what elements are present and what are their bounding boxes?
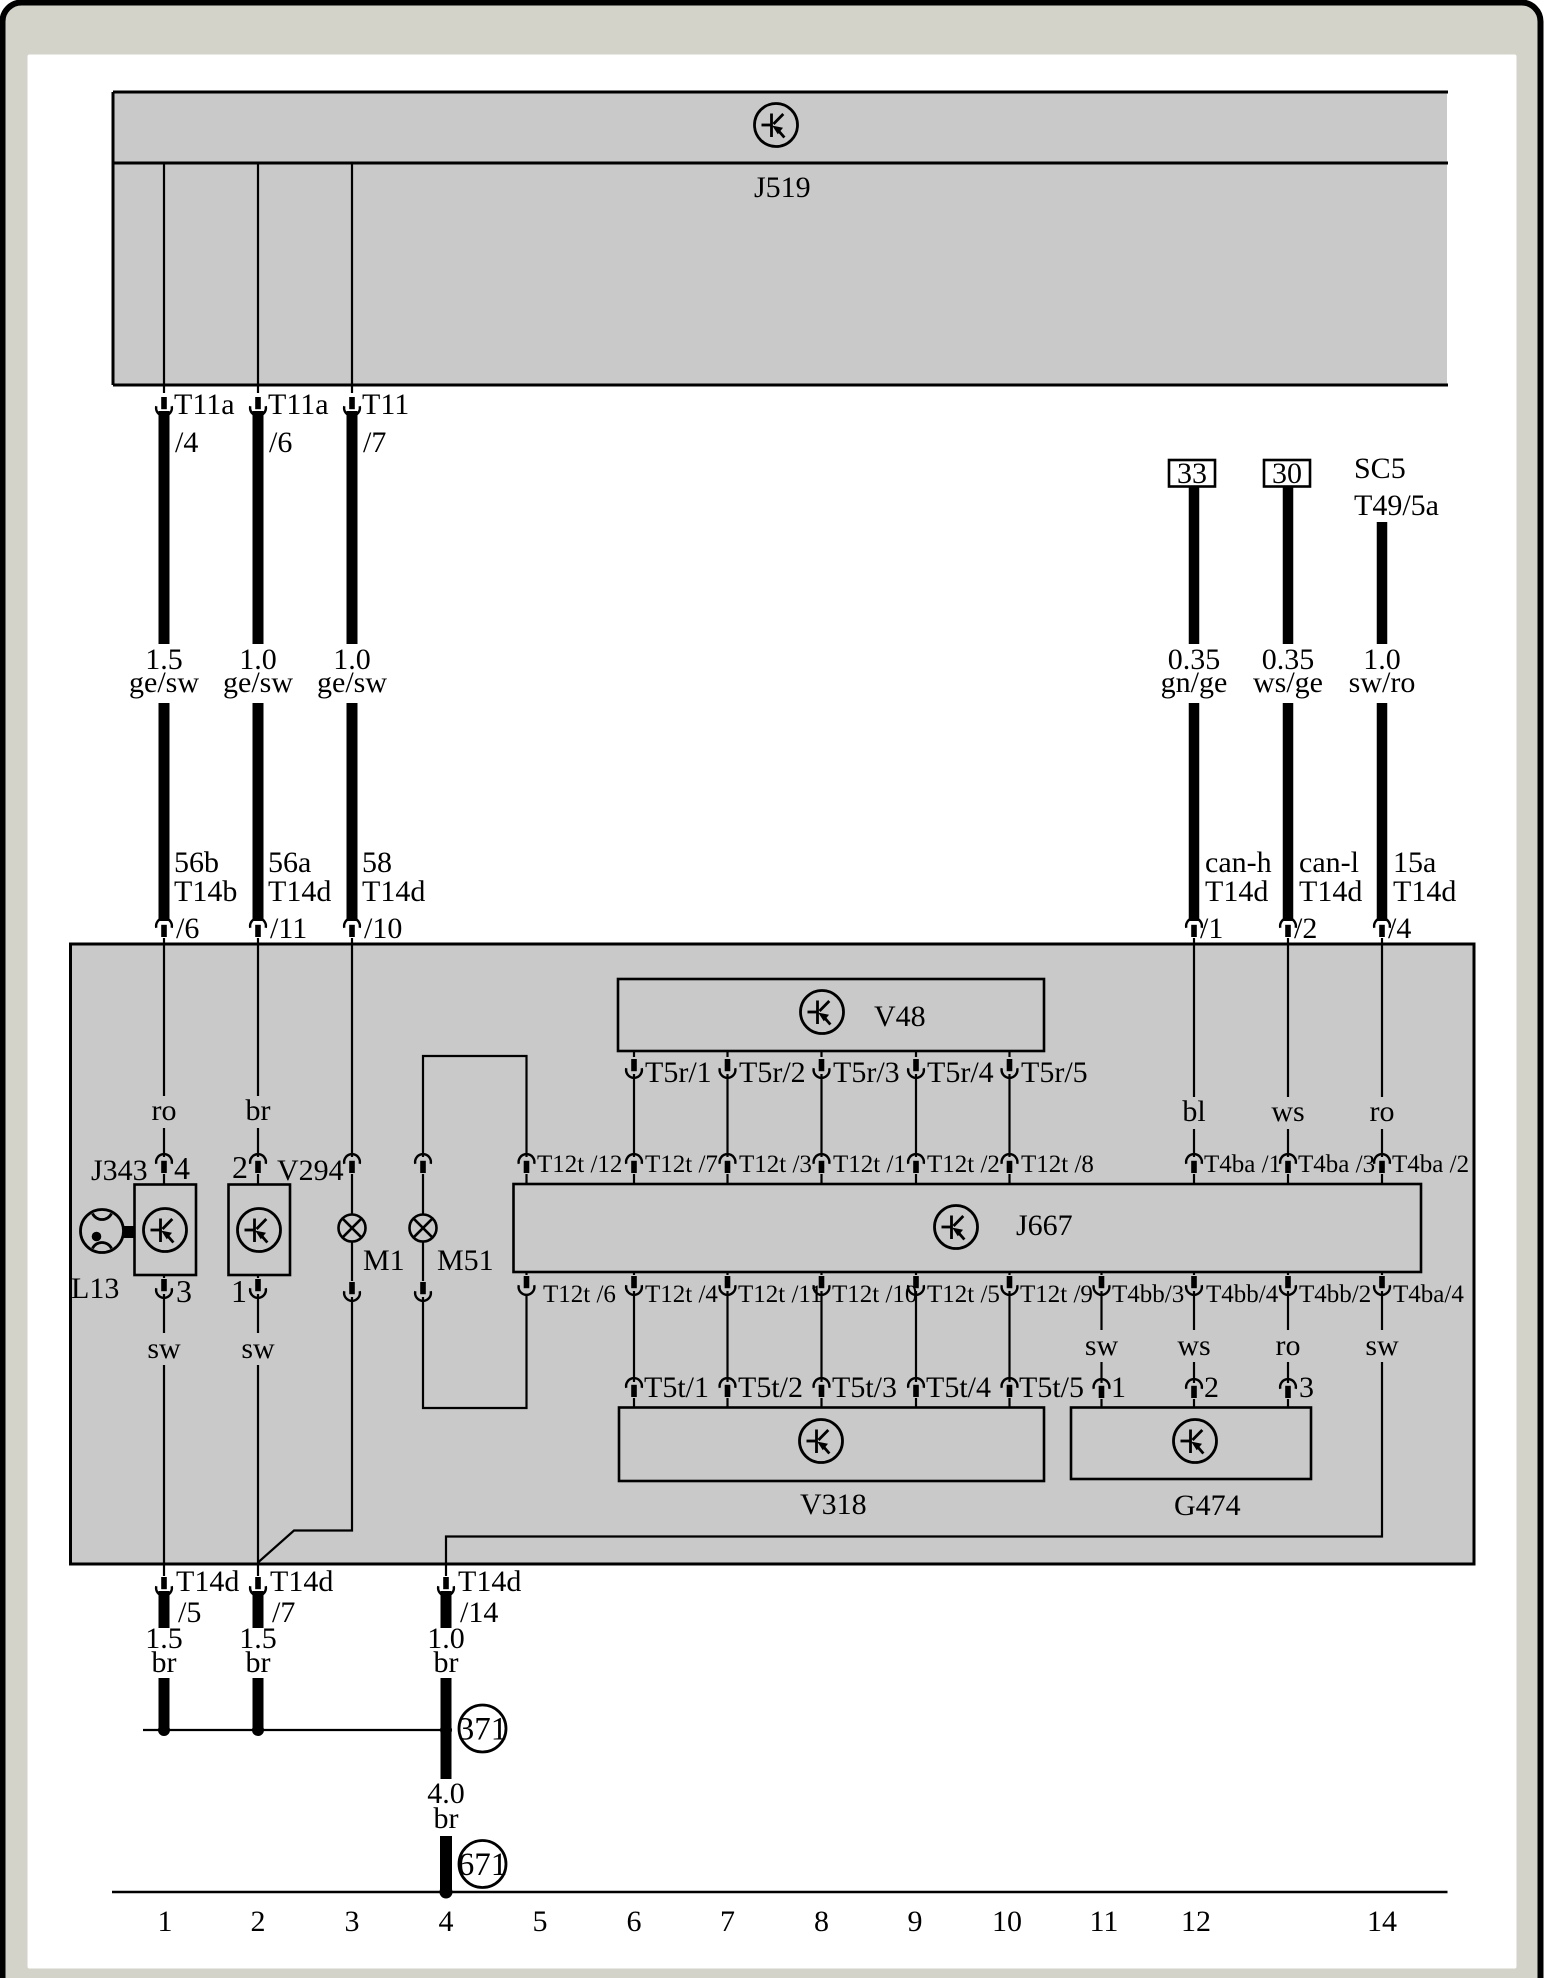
connector T5r/5	[1008, 1051, 1010, 1057]
svg-text:bl: bl	[1182, 1095, 1205, 1128]
connector T14d/1 entering unit	[1186, 918, 1202, 937]
svg-text:T12t /11: T12t /11	[738, 1281, 823, 1308]
svg-text:V318: V318	[800, 1488, 867, 1521]
svg-text:T14d: T14d	[176, 1565, 239, 1598]
svg-text:T5t/1: T5t/1	[644, 1371, 709, 1404]
connector pin 2 of V294	[250, 1154, 266, 1173]
svg-text:L13: L13	[71, 1272, 119, 1305]
svg-text:1: 1	[1111, 1371, 1126, 1404]
svg-text:371: 371	[458, 1712, 508, 1748]
svg-text:4: 4	[174, 1150, 190, 1186]
wire 0.35 ws/ge upper segment	[1283, 486, 1294, 644]
svg-text:V294: V294	[277, 1154, 344, 1187]
svg-text:T14d: T14d	[270, 1565, 333, 1598]
svg-text:8: 8	[814, 1905, 829, 1938]
svg-text:T14d: T14d	[458, 1565, 521, 1598]
ground point 371	[459, 1705, 506, 1752]
connector T12t/5	[915, 1272, 917, 1275]
component symbol in G474	[1174, 1420, 1217, 1463]
connector T12t/11	[726, 1272, 728, 1275]
svg-text:T4ba /1: T4ba /1	[1204, 1151, 1281, 1178]
svg-text:T12t /7: T12t /7	[645, 1151, 718, 1178]
headlamp unit gray box	[71, 944, 1475, 1564]
svg-text:2: 2	[232, 1149, 248, 1185]
connector T14d/4 entering unit	[1374, 918, 1390, 937]
svg-text:/10: /10	[364, 912, 402, 945]
ground point 671	[459, 1841, 506, 1888]
connector T12t/1	[814, 1154, 830, 1173]
connector T4ba/4	[1381, 1272, 1383, 1275]
connector pin 4 of J343	[156, 1154, 172, 1173]
connector T5t/3	[814, 1378, 830, 1397]
svg-text:T4ba/4: T4ba/4	[1393, 1281, 1464, 1308]
junction dot wire2	[252, 1724, 264, 1736]
connector T5r/4	[915, 1051, 917, 1057]
svg-text:9: 9	[908, 1905, 923, 1938]
connector pin of M51 (bottom)	[422, 1241, 424, 1281]
svg-text:br: br	[152, 1646, 177, 1679]
svg-text:/1: /1	[1200, 912, 1223, 945]
terminal 30 box	[1264, 460, 1310, 487]
svg-text:T12t /4: T12t /4	[645, 1281, 718, 1308]
wire 1.5 br upper segment	[159, 1591, 170, 1628]
svg-text:2: 2	[251, 1905, 266, 1938]
ground bus wire	[143, 1729, 446, 1731]
svg-text:sw/ro: sw/ro	[1349, 666, 1416, 699]
bulb M1	[339, 1215, 366, 1242]
connector T14d/2 entering unit	[1280, 918, 1296, 937]
control unit J519 box	[113, 92, 1448, 385]
connector T14b/6 entering unit	[156, 918, 172, 937]
svg-text:ro: ro	[152, 1094, 177, 1127]
wire sw (T4bb/3 to G474/1)	[1100, 1291, 1102, 1330]
svg-text:ge/sw: ge/sw	[129, 666, 199, 699]
wires J667 bottom to V318 pins	[633, 1291, 635, 1382]
wire bl (T14d/1 to T4ba/1)	[1193, 944, 1195, 1097]
wire T5r/2 to T12t/3	[726, 1074, 728, 1157]
connector T4bb/4	[1193, 1272, 1195, 1275]
svg-text:3: 3	[176, 1273, 192, 1309]
shutter motor V318 box	[619, 1408, 1044, 1482]
connector T5t/4	[908, 1378, 924, 1397]
svg-text:gn/ge: gn/ge	[1161, 666, 1228, 699]
wire ws (T4bb/4 to G474/2)	[1193, 1291, 1195, 1330]
wire 0.35 gn/ge upper segment	[1189, 486, 1200, 644]
ground rail line	[112, 1891, 1448, 1894]
wire 1.0 ge/sw (pin6) lower segment	[253, 703, 264, 921]
svg-text:T5t/2: T5t/2	[738, 1371, 803, 1404]
svg-text:T14b: T14b	[174, 875, 237, 908]
wire 1.0 ge/sw (pin7) upper segment	[347, 411, 358, 644]
wire br (T14d/11 to V294/2)	[257, 944, 259, 1096]
svg-text:T14d: T14d	[362, 875, 425, 908]
connector T5r/3	[820, 1051, 822, 1057]
svg-text:T5r/4: T5r/4	[927, 1056, 994, 1089]
component symbol in V318	[800, 1420, 843, 1463]
svg-text:br: br	[434, 1646, 459, 1679]
component symbol in V294	[238, 1209, 281, 1252]
connector T11a/6 at J519	[250, 397, 266, 416]
connector pin of M51 (top)	[415, 1154, 431, 1173]
wire T14d/10 to M1	[351, 944, 353, 1157]
svg-text:ge/sw: ge/sw	[223, 666, 293, 699]
shutter motor V294 box	[229, 1185, 291, 1276]
wire ro (T4bb/2 to G474/3)	[1287, 1291, 1289, 1330]
svg-text:/7: /7	[363, 426, 386, 459]
connector T14d/14 leaving unit	[445, 1564, 447, 1576]
svg-text:T12t /12: T12t /12	[537, 1151, 622, 1178]
svg-text:J343: J343	[91, 1154, 148, 1187]
connector T12t/7	[626, 1154, 642, 1173]
svg-text:SC5: SC5	[1354, 452, 1406, 485]
connector T5r/2	[726, 1051, 728, 1057]
connector 3 of G474	[1280, 1379, 1296, 1398]
wire 1.5 br lower segment	[159, 1678, 170, 1730]
svg-text:T14d: T14d	[1299, 875, 1362, 908]
svg-text:1: 1	[231, 1273, 247, 1309]
connector 1 of G474	[1094, 1379, 1110, 1398]
wire 1.0 sw/ro upper segment	[1377, 522, 1388, 644]
svg-text:T12t /10: T12t /10	[832, 1281, 917, 1308]
svg-text:T12t /8: T12t /8	[1021, 1151, 1094, 1178]
wire 1.5 ge/sw lower segment	[159, 703, 170, 921]
connector T4bb/3	[1100, 1272, 1102, 1275]
svg-text:sw: sw	[1085, 1329, 1119, 1362]
connector T12t/6	[525, 1272, 527, 1275]
svg-text:3: 3	[1299, 1371, 1314, 1404]
wire stub J519 pin 1	[163, 163, 165, 393]
svg-text:T5r/3: T5r/3	[833, 1056, 900, 1089]
svg-text:br: br	[434, 1802, 459, 1835]
svg-text:G474: G474	[1174, 1489, 1241, 1522]
svg-text:T11a: T11a	[268, 388, 329, 421]
svg-text:/4: /4	[1388, 912, 1411, 945]
connector T12t/4	[633, 1272, 635, 1275]
svg-text:br: br	[246, 1646, 271, 1679]
svg-text:T5r/2: T5r/2	[739, 1056, 806, 1089]
svg-text:T4bb/2: T4bb/2	[1299, 1281, 1371, 1308]
svg-text:/6: /6	[269, 426, 292, 459]
wire 1.5 br upper segment	[253, 1591, 264, 1628]
junction dot wire4	[440, 1724, 452, 1736]
wire stub J519 pin 2	[257, 163, 259, 393]
svg-text:T14d: T14d	[268, 875, 331, 908]
connector T5t/2	[720, 1378, 736, 1397]
wire sw (V294/1 to T14d/7)	[257, 1294, 259, 1333]
wire sw (J343/3 to T14d/5)	[163, 1294, 165, 1333]
wire 1.0 ge/sw (pin7) lower segment	[347, 703, 358, 921]
component symbol in J519	[755, 104, 798, 147]
svg-text:T4bb/3: T4bb/3	[1112, 1281, 1184, 1308]
connector T14d/10 entering unit	[344, 918, 360, 937]
connector pin of M1 (bottom)	[351, 1241, 353, 1281]
connector T4bb/2	[1287, 1272, 1289, 1275]
M51 loop bottom wire	[423, 1295, 527, 1408]
svg-text:T49/5a: T49/5a	[1354, 489, 1439, 522]
connector T5r/1	[633, 1051, 635, 1057]
connector T4ba/1	[1186, 1154, 1202, 1173]
wire 1.5 ge/sw upper segment	[159, 411, 170, 644]
wire sw (T4ba/4 to T14d/14)	[1381, 1291, 1383, 1330]
svg-text:br: br	[246, 1094, 271, 1127]
wire 1.0 br lower segment	[441, 1678, 452, 1779]
wire 4.0 br lower segment	[440, 1836, 452, 1892]
gas discharge lamp L13	[81, 1210, 135, 1253]
connector T5t/1	[626, 1378, 642, 1397]
svg-text:/4: /4	[175, 426, 198, 459]
connector T5t/5	[1002, 1378, 1018, 1397]
connector T14d/5 leaving unit	[163, 1564, 165, 1576]
svg-text:M1: M1	[363, 1244, 405, 1277]
svg-text:1: 1	[158, 1905, 173, 1938]
wire T5r/1 to T12t/7	[633, 1074, 635, 1157]
power module J343 box	[135, 1185, 197, 1276]
connector T4ba/3	[1280, 1154, 1296, 1173]
svg-text:T5r/5: T5r/5	[1021, 1056, 1088, 1089]
svg-text:ro: ro	[1370, 1095, 1395, 1128]
wire 0.35 ws/ge lower segment	[1283, 703, 1294, 921]
component symbol in V48	[801, 991, 844, 1034]
wire M1 return to T14d/7	[259, 1297, 353, 1564]
wire 1.0 br upper segment	[441, 1591, 452, 1628]
junction dot ground rail	[440, 1886, 453, 1899]
connector pin 3 of J343	[163, 1275, 165, 1278]
svg-text:5: 5	[533, 1905, 548, 1938]
svg-text:T11: T11	[362, 388, 409, 421]
connector T14d/7 leaving unit	[257, 1564, 259, 1576]
svg-text:671: 671	[458, 1847, 508, 1883]
connector T11/7 at J519	[344, 397, 360, 416]
svg-text:T5t/3: T5t/3	[832, 1371, 897, 1404]
control unit J667 box	[514, 1184, 1422, 1272]
connector T12t/3	[720, 1154, 736, 1173]
svg-text:T4bb/4: T4bb/4	[1206, 1281, 1279, 1308]
svg-text:2: 2	[1204, 1371, 1219, 1404]
svg-text:sw: sw	[147, 1332, 181, 1365]
connector pin 1 of V294	[257, 1275, 259, 1278]
svg-text:T12t /1: T12t /1	[833, 1151, 906, 1178]
svg-text:T14d: T14d	[1393, 875, 1456, 908]
svg-text:ws: ws	[1177, 1329, 1210, 1362]
svg-text:V48: V48	[874, 1000, 926, 1033]
junction dot wire1	[158, 1724, 170, 1736]
svg-text:30: 30	[1272, 457, 1302, 490]
connector T4ba/2	[1374, 1154, 1390, 1173]
svg-text:33: 33	[1177, 457, 1207, 490]
component symbol in J667	[935, 1206, 978, 1249]
svg-text:J667: J667	[1016, 1209, 1073, 1242]
position sensor G474 box	[1071, 1408, 1311, 1480]
svg-text:6: 6	[627, 1905, 642, 1938]
svg-text:ws/ge: ws/ge	[1253, 666, 1323, 699]
svg-text:3: 3	[345, 1905, 360, 1938]
svg-text:T11a: T11a	[174, 388, 235, 421]
svg-text:/6: /6	[176, 912, 199, 945]
svg-text:M51: M51	[437, 1244, 494, 1277]
svg-text:sw: sw	[1365, 1329, 1399, 1362]
svg-text:14: 14	[1367, 1905, 1397, 1938]
wire stub J519 pin 3	[351, 163, 353, 393]
svg-text:ge/sw: ge/sw	[317, 666, 387, 699]
svg-text:T5t/5: T5t/5	[1019, 1371, 1084, 1404]
connector T12t/12	[519, 1154, 535, 1173]
svg-text:T5r/1: T5r/1	[645, 1056, 712, 1089]
connector pin of M1 (top)	[344, 1154, 360, 1173]
wire T5r/3 to T12t/1	[820, 1074, 822, 1157]
connector T11a/4 at J519	[156, 397, 172, 416]
svg-text:J519: J519	[754, 171, 811, 204]
connector T14d/11 entering unit	[250, 918, 266, 937]
svg-text:/2: /2	[1294, 912, 1317, 945]
svg-text:T4ba /2: T4ba /2	[1392, 1151, 1469, 1178]
svg-text:T4ba /3: T4ba /3	[1298, 1151, 1375, 1178]
wire 1.5 br lower segment	[253, 1678, 264, 1730]
bulb M51	[410, 1215, 437, 1242]
svg-text:/11: /11	[270, 912, 307, 945]
wire ws (T14d/2 to T4ba/3)	[1287, 944, 1289, 1097]
svg-text:4: 4	[439, 1905, 454, 1938]
svg-text:T12t /9: T12t /9	[1020, 1281, 1093, 1308]
range control motor V48 box	[618, 979, 1044, 1051]
connector T12t/10	[820, 1272, 822, 1275]
M51 loop top wire	[423, 1056, 527, 1157]
wire T5r/4 to T12t/2	[915, 1074, 917, 1157]
svg-text:T12t /3: T12t /3	[739, 1151, 812, 1178]
wire 1.0 sw/ro lower segment	[1377, 703, 1388, 921]
svg-text:10: 10	[992, 1905, 1022, 1938]
svg-text:ws: ws	[1271, 1095, 1304, 1128]
connector T12t/9	[1008, 1272, 1010, 1275]
connector 2 of G474	[1186, 1379, 1202, 1398]
svg-text:11: 11	[1090, 1905, 1119, 1938]
wire 1.0 ge/sw (pin6) upper segment	[253, 411, 264, 644]
connector T12t/2	[908, 1154, 924, 1173]
svg-text:ro: ro	[1276, 1329, 1301, 1362]
terminal 33 box	[1169, 460, 1215, 487]
svg-text:T14d: T14d	[1205, 875, 1268, 908]
wire T5r/5 to T12t/8	[1008, 1074, 1010, 1157]
component symbol in J343	[144, 1209, 187, 1252]
svg-text:T12t /6: T12t /6	[543, 1281, 616, 1308]
svg-text:7: 7	[720, 1905, 735, 1938]
wire 0.35 gn/ge lower segment	[1189, 703, 1200, 921]
connector T12t/8	[1002, 1154, 1018, 1173]
wire ro (T14d/4 to T4ba/2)	[1381, 944, 1383, 1097]
svg-text:T12t /5: T12t /5	[927, 1281, 1000, 1308]
svg-text:T5t/4: T5t/4	[926, 1371, 991, 1404]
wire ro (T14b/6 to J343/4)	[163, 944, 165, 1096]
svg-text:12: 12	[1181, 1905, 1211, 1938]
svg-text:sw: sw	[241, 1332, 275, 1365]
svg-text:T12t /2: T12t /2	[927, 1151, 1000, 1178]
svg-text:/14: /14	[460, 1596, 498, 1629]
